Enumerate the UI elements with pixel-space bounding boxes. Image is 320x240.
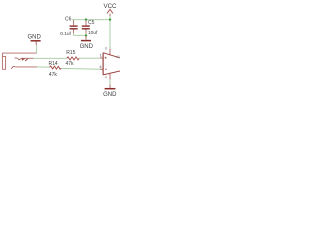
op-amp U1: [102, 53, 104, 75]
svg-text:R15: R15: [66, 50, 75, 56]
wire opamp to gnd: [109, 80, 111, 85]
svg-text:C6: C6: [65, 17, 72, 23]
wire cap rail: [72, 19, 110, 21]
ground GND3: [109, 85, 111, 88]
svg-text:VCC: VCC: [103, 3, 117, 10]
pin 4 stub: [100, 68, 104, 70]
junction C5 rail: [85, 18, 87, 20]
svg-text:GND: GND: [28, 34, 42, 40]
wire net2 ring: [37, 66, 50, 68]
svg-text:1: 1: [100, 53, 103, 58]
pin 1 stub: [100, 57, 104, 59]
ground GND1: [35, 41, 37, 45]
pin 8 stub: [109, 49, 111, 56]
svg-text:10uf: 10uf: [88, 30, 98, 36]
svg-text:47k: 47k: [49, 72, 58, 78]
wire net2b: [61, 67, 100, 70]
resistor R15: [67, 57, 79, 60]
svg-text:C5: C5: [88, 20, 95, 26]
capacitor C6: [73, 20, 75, 25]
capacitor C5: [85, 20, 87, 25]
svg-text:R14: R14: [49, 61, 58, 67]
opamp vminus pin: [109, 73, 111, 80]
svg-text:GND: GND: [80, 44, 94, 50]
junction caps gnd: [85, 34, 87, 36]
svg-text:47k: 47k: [66, 61, 75, 67]
audio jack J1: [2, 53, 36, 69]
wire vcc vertical: [109, 16, 111, 49]
svg-text:4: 4: [105, 75, 108, 80]
svg-text:GND: GND: [103, 92, 117, 98]
wire net1 tip: [34, 57, 67, 59]
svg-text:d6: d6: [116, 55, 120, 59]
wire caps to gnd: [74, 33, 86, 35]
svg-text:4: 4: [99, 64, 102, 69]
svg-text:8: 8: [105, 45, 108, 50]
wire sleeve to gnd: [36, 45, 38, 53]
junction vcc rail: [109, 18, 111, 20]
wire net1b: [79, 57, 100, 59]
ground GND2: [85, 36, 87, 40]
resistor R14: [50, 66, 62, 69]
svg-text:0.1uf: 0.1uf: [60, 31, 71, 37]
